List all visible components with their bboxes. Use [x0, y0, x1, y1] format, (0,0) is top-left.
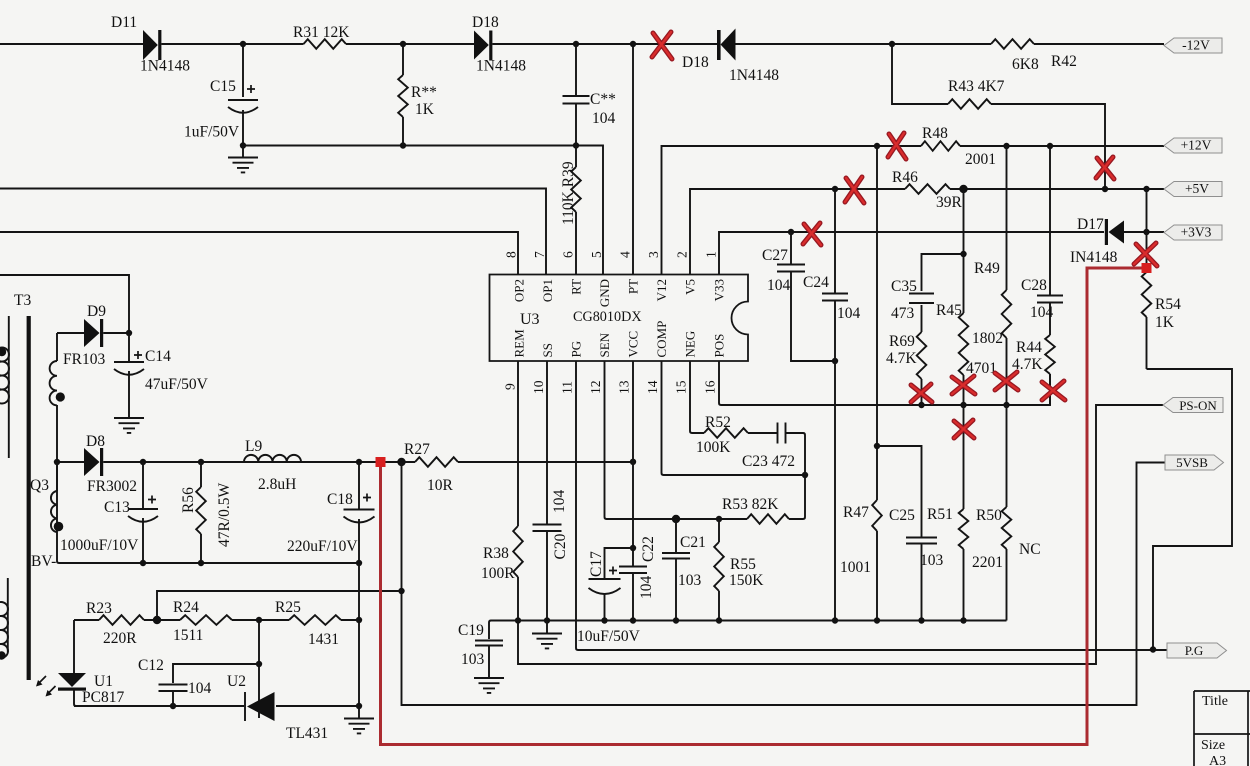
wire R52 to C23 to corner: [748, 433, 805, 475]
resistor R54: [1142, 272, 1152, 317]
svg-text:+3V3: +3V3: [1181, 225, 1212, 240]
diode D18 second: [717, 29, 736, 61]
svg-text:220uF/10V: 220uF/10V: [287, 538, 358, 555]
svg-text:1802: 1802: [972, 330, 1003, 347]
svg-text:1K: 1K: [1155, 314, 1175, 331]
svg-text:U1: U1: [94, 673, 113, 690]
tag +3V3: [1164, 225, 1222, 241]
node C12 bottom: [170, 703, 176, 709]
svg-text:5: 5: [589, 251, 604, 258]
svg-text:R51: R51: [927, 506, 953, 523]
wire D9 cathode to C14 node: [103, 332, 129, 334]
wire left line to pin8 OP2: [0, 232, 518, 275]
wire R50 column: [1006, 405, 1008, 621]
svg-text:R23: R23: [86, 600, 112, 617]
node VCC/C17 jog: [630, 545, 636, 551]
capacitor C14 electrolytic: [114, 351, 144, 375]
svg-text:14: 14: [645, 380, 660, 394]
svg-text:PG: PG: [569, 341, 584, 358]
svg-text:104: 104: [638, 576, 655, 600]
resistor R52: [704, 428, 748, 438]
diode D8: [84, 448, 103, 476]
resistor R23: [99, 615, 144, 625]
svg-text:C27: C27: [762, 247, 788, 264]
svg-text:R47: R47: [843, 504, 869, 521]
svg-text:+12V: +12V: [1181, 138, 1212, 153]
svg-text:3: 3: [646, 251, 661, 258]
resistor R48: [921, 141, 960, 151]
resistor R43: [948, 99, 991, 109]
node ground-rail/C15: [240, 142, 246, 148]
wire 5VSB column from R27-left down and right to 5VSB tag: [402, 462, 1166, 705]
svg-text:C14: C14: [145, 348, 171, 365]
svg-text:C19: C19: [458, 622, 484, 639]
wire bottom line y=706 from LED to TL431 and ground column: [74, 705, 359, 707]
capacitor C35: [909, 294, 934, 304]
resistor R38: [513, 526, 523, 577]
svg-text:7: 7: [532, 251, 547, 258]
svg-text:R**: R**: [411, 84, 437, 101]
node +12V/R49 column: [1003, 143, 1009, 149]
wire ground rail y=145.5 to pin5 GND: [243, 146, 603, 275]
node COMP/R52C23: [802, 472, 808, 478]
resistor R55: [714, 542, 724, 591]
ground under C20: [532, 621, 562, 649]
svg-text:104: 104: [188, 680, 212, 697]
wire +12V rail y=146 from pin3 V12 to +12V tag: [662, 146, 1165, 275]
resistor R47: [872, 500, 882, 531]
svg-text:1N4148: 1N4148: [729, 67, 779, 84]
resistor R24: [180, 615, 232, 625]
svg-text:2.8uH: 2.8uH: [258, 476, 296, 493]
svg-text:150K: 150K: [729, 572, 764, 589]
red X on D17 column: [1134, 243, 1157, 266]
node C24/ground bus: [832, 617, 838, 623]
svg-text:A3: A3: [1209, 754, 1226, 766]
svg-text:C12: C12: [138, 657, 164, 674]
node sense/R69: [918, 402, 924, 408]
svg-text:6K8: 6K8: [1012, 56, 1039, 73]
wire C13 column: [142, 462, 144, 563]
resistor R42: [991, 39, 1034, 49]
red X on top rail at PT: [652, 32, 672, 59]
ground under TL431: [344, 706, 374, 733]
capacitor C13 electrolytic: [128, 496, 158, 522]
wire C14 column: [128, 333, 130, 417]
node R56 bottom: [198, 560, 204, 566]
svg-text:R27: R27: [404, 441, 430, 458]
transformer T3 secondary winding upper: [50, 361, 65, 405]
wire pin9 REM through R38 down and right to PS-ON column: [518, 361, 1163, 664]
svg-text:P.G: P.G: [1185, 643, 1203, 658]
node C27/C24 join: [832, 358, 838, 364]
svg-text:6: 6: [561, 251, 576, 258]
capacitor C18 electrolytic: [344, 494, 375, 523]
node top-rail/C**: [573, 41, 579, 47]
svg-text:SEN: SEN: [597, 332, 612, 357]
node R23/R24 junction big: [153, 616, 161, 624]
wire R24/R25 junction down to TL431 ref: [258, 620, 260, 718]
svg-text:10R: 10R: [427, 477, 454, 494]
wire C18 column: [358, 462, 360, 563]
wire pin15 NEG down to R52: [690, 361, 704, 433]
ground under C14: [114, 417, 144, 433]
svg-text:R38: R38: [483, 545, 509, 562]
wire R45 column from +5V big node down: [963, 189, 965, 405]
wire PC817 LED cathode down to bottom line: [74, 690, 76, 706]
node ground/R55: [716, 617, 722, 623]
red X on R51 column: [954, 420, 974, 438]
svg-text:R54: R54: [1155, 296, 1181, 313]
IC U3 CG8010DX body: [490, 275, 749, 362]
svg-text:1431: 1431: [308, 631, 339, 648]
svg-text:SS: SS: [540, 343, 555, 357]
wire pin14 COMP down and right: [662, 361, 806, 475]
wire pin4 PT column: [632, 44, 634, 275]
node secondary winding tap D8: [54, 459, 60, 465]
svg-text:C25: C25: [889, 507, 915, 524]
wire pin11 PG down and right to P.G tag: [576, 361, 1167, 650]
wire PC817 LED anode column: [73, 620, 75, 673]
node C21 top big: [672, 515, 680, 523]
svg-text:C13: C13: [104, 499, 130, 516]
svg-text:R31 12K: R31 12K: [293, 24, 350, 41]
capacitor C24: [822, 294, 848, 301]
wire C17 jog and column: [605, 548, 634, 621]
svg-text:4701: 4701: [966, 360, 997, 377]
node top-rail/R43: [889, 41, 895, 47]
node ground/C25: [918, 617, 924, 623]
wire D8 anode from winding: [57, 405, 84, 491]
ground under C15: [228, 146, 258, 173]
svg-text:GND: GND: [597, 279, 612, 307]
tag P.G: [1167, 643, 1227, 658]
node C18 top: [356, 459, 362, 465]
wire C** column and pin6 RT through R39: [575, 44, 577, 275]
wire +3V3 rail y=232 from pin1 V33 to +3V3 tag: [719, 232, 1164, 275]
wire pin12 SEN down and right along y=519: [605, 361, 677, 519]
svg-text:100R: 100R: [481, 565, 515, 582]
svg-text:R52: R52: [705, 414, 731, 431]
svg-text:PS-ON: PS-ON: [1179, 398, 1217, 413]
wire pin10 SS through C20 to ground bus: [546, 361, 548, 621]
svg-text:D11: D11: [111, 14, 137, 31]
red X on +3V3 rail: [803, 223, 821, 245]
wire C24 column full: [834, 189, 836, 621]
resistor R69: [917, 332, 927, 379]
red X on R49 column: [995, 372, 1018, 390]
svg-text:1511: 1511: [173, 627, 203, 644]
svg-text:110K R39: 110K R39: [560, 161, 577, 225]
node C13 top: [140, 459, 146, 465]
diode D11: [143, 30, 161, 60]
node +5V/R45 column big: [959, 185, 967, 193]
node top-rail/PT: [630, 41, 636, 47]
node sense/R49-R50: [1003, 402, 1009, 408]
node +3V3/C27 column: [788, 229, 794, 235]
wire D8 output line y=462 to VCC junction: [103, 461, 633, 463]
resistor R25: [289, 615, 341, 625]
wire R** column: [402, 44, 404, 146]
svg-text:39R: 39R: [936, 194, 963, 211]
wire C25 jog and column: [877, 446, 922, 621]
svg-text:NC: NC: [1019, 541, 1041, 558]
svg-text:9: 9: [503, 383, 518, 390]
node R25 right on ground column: [356, 617, 362, 623]
wire R54 route to P.G junction: [1147, 369, 1233, 650]
svg-text:-12V: -12V: [1182, 38, 1210, 53]
transformer T3 left winding lower: [0, 578, 8, 660]
wire ground bus y=620.5: [489, 621, 1007, 640]
svg-text:D18: D18: [472, 14, 499, 31]
svg-text:PT: PT: [626, 279, 641, 294]
svg-text:C28: C28: [1021, 277, 1047, 294]
svg-text:TL431: TL431: [286, 725, 328, 742]
red X on +5V rail: [845, 177, 864, 203]
svg-text:104: 104: [767, 277, 791, 294]
svg-text:C20: C20: [552, 533, 569, 559]
svg-text:104: 104: [551, 490, 568, 514]
node +12V/C28 column: [1047, 143, 1053, 149]
svg-text:1K: 1K: [415, 101, 435, 118]
svg-text:OP1: OP1: [540, 279, 555, 302]
node R38/ground bus: [515, 617, 521, 623]
svg-text:103: 103: [678, 572, 702, 589]
node +5V/R43 bottom: [1102, 186, 1108, 192]
resistor R50: [1002, 507, 1012, 549]
wire top rail y=44 from left edge to -12V tag: [0, 43, 1164, 45]
wire left line to D9 node: [0, 275, 129, 333]
svg-text:R43 4K7: R43 4K7: [948, 78, 1005, 95]
svg-text:2001: 2001: [965, 151, 996, 168]
capacitor C12: [159, 685, 188, 692]
capacitor C20: [533, 525, 562, 532]
diode D9: [84, 319, 103, 347]
node P.G junction: [1150, 646, 1156, 652]
node R47/C25 jog: [874, 443, 880, 449]
svg-text:R46: R46: [892, 169, 918, 186]
wire C35 jog and C35-R69 column: [922, 254, 964, 405]
resistor R45: [959, 313, 969, 375]
wire pin13 VCC column with C22: [632, 361, 634, 621]
svg-text:V33: V33: [712, 279, 727, 301]
resistor R27: [415, 457, 458, 467]
capacitor C27: [777, 265, 805, 272]
svg-text:IN4148: IN4148: [1070, 249, 1118, 266]
capacitor C23 series: [778, 423, 786, 444]
svg-text:2: 2: [675, 251, 690, 258]
resistor R49: [1002, 290, 1012, 338]
svg-text:RT: RT: [569, 279, 584, 295]
node sense/R45-R51: [960, 402, 966, 408]
svg-text:C35: C35: [891, 278, 917, 295]
capacitor C15 electrolytic: [228, 85, 258, 113]
svg-text:T3: T3: [14, 292, 31, 309]
svg-text:1uF/50V: 1uF/50V: [184, 124, 240, 141]
tag +12V: [1164, 138, 1222, 154]
node +5V/C24 column: [832, 186, 838, 192]
svg-text:11: 11: [560, 381, 575, 394]
node TL431 right / ground: [356, 703, 362, 709]
capacitor C19: [475, 641, 503, 646]
node R27 left / 5VSB column: [397, 458, 405, 466]
wire C27 column and jog to C24 column: [791, 232, 835, 361]
svg-text:473: 473: [891, 305, 915, 322]
node R23/R24 feedback tap: [398, 588, 404, 594]
svg-text:1N4148: 1N4148: [140, 58, 190, 75]
wire SEN line C21 to R53 and up to COMP node: [676, 475, 805, 519]
node R56 top: [198, 459, 204, 465]
red node at C18/L9 output: [376, 457, 386, 467]
node top-rail/R**: [400, 41, 406, 47]
capacitor C25: [906, 538, 937, 544]
node R45/C35 jog: [960, 251, 966, 257]
wire R51 column: [963, 405, 965, 621]
svg-text:Q3: Q3: [30, 477, 49, 494]
svg-text:R49: R49: [974, 260, 1000, 277]
svg-text:C**: C**: [590, 91, 616, 108]
svg-text:R53 82K: R53 82K: [722, 496, 779, 513]
node ground/SS: [544, 617, 550, 623]
node ground/C21: [673, 617, 679, 623]
svg-text:47uF/50V: 47uF/50V: [145, 376, 209, 393]
svg-text:Title: Title: [1202, 694, 1228, 709]
svg-text:12: 12: [588, 381, 603, 395]
svg-text:104: 104: [837, 305, 861, 322]
svg-text:1001: 1001: [840, 559, 871, 576]
svg-text:V12: V12: [654, 279, 669, 301]
svg-text:R55: R55: [730, 556, 756, 573]
opto U1 PC817 LED: [36, 673, 86, 697]
svg-text:1N4148: 1N4148: [476, 58, 526, 75]
inductor L9: [244, 455, 301, 462]
svg-text:COMP: COMP: [654, 321, 669, 358]
wire R43 branch: [892, 44, 1105, 189]
tag +5V: [1164, 181, 1222, 197]
wire R56 column: [200, 462, 202, 563]
transformer T3 core: [27, 316, 31, 680]
svg-text:15: 15: [674, 380, 689, 394]
svg-text:+5V: +5V: [1185, 181, 1209, 196]
title block: [1194, 691, 1250, 766]
red node at R54 top: [1142, 263, 1152, 273]
svg-text:2201: 2201: [972, 554, 1003, 571]
node +3V3/D17 column: [1143, 229, 1149, 235]
shunt U2 TL431: [245, 692, 275, 721]
svg-text:D9: D9: [87, 303, 106, 320]
capacitor C28: [1037, 296, 1063, 303]
svg-text:R69: R69: [889, 333, 915, 350]
svg-text:REM: REM: [512, 329, 527, 358]
svg-text:C17: C17: [588, 551, 605, 577]
node C12 top jog: [256, 661, 262, 667]
wire +5V rail y=189 from pin2 V5 to +5V tag: [690, 189, 1164, 275]
wire R55 column: [718, 519, 720, 621]
wire C19 column below plates: [488, 646, 490, 677]
wire C12 jog: [173, 664, 259, 706]
wire D17 branch on +3V3 and column to R54: [1146, 189, 1148, 369]
svg-text:VCC: VCC: [626, 331, 641, 358]
resistor R51: [959, 509, 969, 549]
svg-text:FR3002: FR3002: [87, 478, 137, 495]
wire feedback tap to R24 junction: [157, 591, 402, 620]
node +12V/R47 column: [874, 143, 880, 149]
resistor R44: [1045, 335, 1055, 374]
svg-text:R24: R24: [173, 599, 199, 616]
wire C21 column: [675, 519, 677, 621]
svg-text:C22: C22: [640, 536, 657, 562]
wire C18/ground column down to TL431 line: [358, 563, 360, 706]
svg-text:103: 103: [920, 552, 944, 569]
svg-text:D17: D17: [1077, 216, 1104, 233]
svg-text:220R: 220R: [103, 630, 137, 647]
red modification wire: [381, 268, 1147, 745]
svg-text:13: 13: [617, 380, 632, 394]
node R55 top: [716, 516, 722, 522]
node C13 bottom: [140, 560, 146, 566]
capacitor C**: [563, 96, 590, 104]
node R24/R25 junction: [256, 617, 262, 623]
svg-text:CG8010DX: CG8010DX: [573, 309, 642, 325]
node ground/C22: [630, 617, 636, 623]
svg-text:4: 4: [618, 251, 633, 258]
svg-text:C24: C24: [803, 274, 829, 291]
tag PS-ON: [1163, 398, 1223, 414]
wire R49 column: [1006, 146, 1008, 405]
node ground/R51: [960, 617, 966, 623]
red X on R69 column: [911, 384, 932, 402]
node ground-rail/R**: [400, 142, 406, 148]
svg-text:8: 8: [504, 251, 519, 258]
svg-text:C23 472: C23 472: [742, 453, 795, 470]
wire D9 anode from winding: [57, 333, 84, 361]
svg-text:47R/0.5W: 47R/0.5W: [216, 482, 233, 547]
svg-text:R42: R42: [1051, 53, 1077, 70]
wire R23 line y=620: [74, 619, 359, 621]
ground under C19: [474, 678, 504, 693]
svg-text:R44: R44: [1016, 339, 1042, 356]
svg-text:C21: C21: [680, 534, 706, 551]
svg-text:10: 10: [531, 380, 546, 394]
svg-text:D18: D18: [682, 54, 709, 71]
wire C15 column: [242, 44, 244, 146]
resistor R**: [398, 75, 408, 117]
node D9/C14: [126, 330, 132, 336]
svg-text:BV-: BV-: [31, 553, 56, 570]
wire BV- bus y=563: [57, 462, 359, 563]
svg-text:D8: D8: [86, 433, 105, 450]
capacitor C22: [619, 567, 647, 574]
transformer T3 left winding upper: [0, 316, 9, 458]
svg-text:R50: R50: [976, 507, 1002, 524]
svg-text:U2: U2: [227, 673, 246, 690]
svg-text:5VSB: 5VSB: [1176, 455, 1208, 470]
svg-text:R45: R45: [936, 302, 962, 319]
svg-text:R48: R48: [922, 125, 948, 142]
svg-text:4.7K: 4.7K: [886, 350, 917, 367]
svg-text:R56: R56: [180, 487, 197, 513]
red X on +12V rail: [888, 133, 906, 159]
diode D18 top-left: [474, 31, 492, 61]
node C18 bottom: [356, 560, 362, 566]
red X on R45 column: [952, 376, 975, 394]
red X on R43 column: [1096, 157, 1114, 179]
resistor R53: [747, 514, 789, 524]
svg-text:10uF/50V: 10uF/50V: [577, 628, 641, 645]
svg-text:C15: C15: [210, 78, 236, 95]
node top-rail/C15: [240, 41, 246, 47]
svg-text:POS: POS: [712, 334, 727, 358]
